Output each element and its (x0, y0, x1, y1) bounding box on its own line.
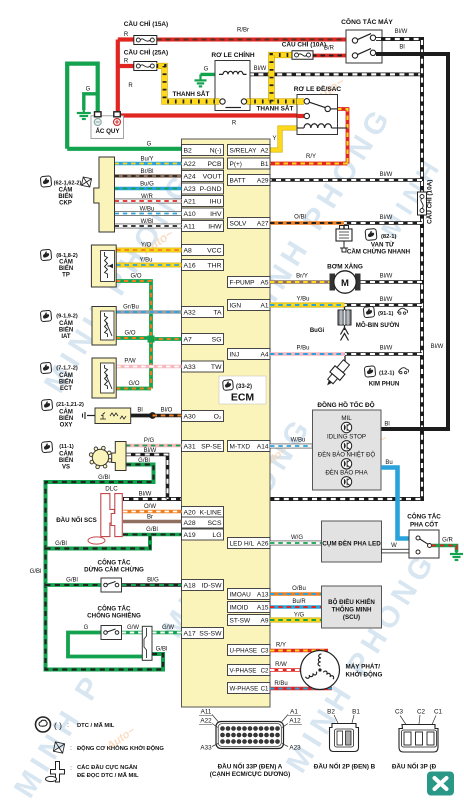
svg-text:RƠ LE CHÍNH: RƠ LE CHÍNH (211, 50, 255, 59)
svg-text:LG: LG (212, 532, 221, 539)
battery ẮC QUY (91, 112, 124, 139)
svg-text:M: M (341, 278, 349, 289)
svg-text:VCC: VCC (207, 247, 221, 254)
svg-text:R: R (128, 83, 133, 89)
node pin F-PUMP A5 (228, 277, 271, 288)
node splice A30 (149, 412, 156, 419)
legend jumper icon (46, 762, 139, 783)
fuse CẦU CHÌ (10A) top (282, 39, 352, 60)
fuse CẦU CHÌ (25A) (124, 47, 168, 71)
svg-text:BuGi: BuGi (310, 328, 325, 334)
fuse CẦU CHÌ (15A) (124, 18, 168, 45)
svg-text:C2: C2 (261, 667, 269, 674)
svg-text:A11: A11 (201, 709, 212, 716)
svg-text:R/Y: R/Y (306, 154, 316, 160)
sensor IAT label (40, 310, 78, 340)
svg-text:Y/O: Y/O (141, 243, 152, 249)
svg-text:Y: Y (272, 136, 276, 142)
svg-text:CẢM: CẢM (59, 320, 73, 327)
svg-text:ECT: ECT (60, 386, 72, 392)
svg-text:Bl/W: Bl/W (144, 448, 157, 454)
relay RƠ LE ĐỀ/SAC (294, 83, 348, 135)
svg-text:IHU: IHU (210, 198, 222, 205)
wire B/W main relay output (249, 66, 422, 74)
motor BƠM XĂNG fuel pump (327, 262, 363, 294)
svg-text:R/W: R/W (275, 662, 287, 668)
ground dimmer (450, 550, 463, 560)
connector ĐẦU NỐI 2P (314, 709, 376, 771)
meter ĐỒNG HỒ TỐC ĐỘ (313, 399, 382, 490)
node pin A23 P-GND (182, 183, 224, 194)
svg-text:C2: C2 (417, 709, 426, 716)
svg-text:CẢM: CẢM (59, 259, 73, 266)
svg-text:O/Bu: O/Bu (292, 586, 306, 592)
svg-text:Bl/W: Bl/W (395, 29, 408, 35)
svg-text:A12: A12 (289, 718, 301, 725)
svg-text:A8: A8 (184, 247, 193, 254)
svg-text:A4: A4 (261, 351, 269, 358)
coil MÔ-BIN SƯỜN (310, 307, 351, 341)
node pin IGN A1 (228, 300, 271, 311)
svg-text:TW: TW (211, 364, 222, 371)
svg-text:CẢM: CẢM (59, 451, 73, 458)
svg-text:(12-1): (12-1) (379, 371, 395, 377)
svg-text:CÔNG TẮC: CÔNG TẮC (98, 605, 132, 613)
svg-text:C1: C1 (434, 709, 443, 716)
wire G relay coil ground (201, 67, 224, 75)
node pin P(+) B1 (228, 158, 271, 169)
wire W/R CKP (115, 194, 182, 201)
svg-text:R: R (232, 121, 237, 127)
svg-text:INJ: INJ (230, 351, 240, 358)
svg-text:CỤM ĐÈN PHA LED: CỤM ĐÈN PHA LED (322, 539, 381, 548)
svg-text:O/W: O/W (144, 504, 156, 510)
svg-text:Bl: Bl (384, 422, 389, 428)
switch CÔNG TẮC CHỐNG NGHIÊNG (87, 605, 141, 640)
sensor OXY (83, 408, 131, 424)
svg-text:BATT: BATT (230, 177, 246, 184)
ECM label (33-2) (219, 376, 266, 404)
svg-text:A10: A10 (184, 211, 196, 218)
svg-text:G/Bl: G/Bl (55, 541, 67, 547)
svg-text:A33: A33 (200, 745, 212, 752)
wire R battery feed (118, 32, 304, 127)
svg-text:KHỞI ĐỘNG: KHỞI ĐỘNG (346, 670, 383, 679)
node pin IMOAU A13 (228, 589, 271, 600)
svg-text::: : (67, 722, 69, 729)
relay RƠ LE CHÍNH (211, 50, 255, 111)
svg-text:G/O: G/O (128, 381, 139, 387)
svg-text:O₂: O₂ (214, 413, 222, 420)
wire R/Y starter relay to B1 (270, 109, 348, 164)
svg-text:A15: A15 (257, 604, 269, 611)
solenoid label (82-1) (347, 229, 411, 256)
svg-text:P/G: P/G (144, 438, 155, 444)
svg-text:A29: A29 (257, 177, 269, 184)
wire O/Bu IMOAU (270, 586, 322, 594)
svg-text:A19: A19 (184, 532, 196, 539)
svg-text:G/Bl: G/Bl (98, 475, 110, 481)
svg-text:G: G (204, 67, 209, 73)
svg-text:Bl/W: Bl/W (380, 274, 393, 280)
svg-text:ĐỂ ĐỌC DTC / MÃ MIL: ĐỂ ĐỌC DTC / MÃ MIL (77, 772, 139, 779)
coil label (91-1) (356, 306, 408, 329)
svg-text:CHỐNG NGHIÊNG: CHỐNG NGHIÊNG (87, 612, 141, 620)
node pin A10 IHV (182, 208, 224, 219)
connector ĐẦU NỐI 33P (199, 709, 302, 779)
wire G/Bl DLC LG (123, 527, 182, 535)
svg-text:A23: A23 (184, 186, 196, 193)
wire W/Bu CKP (115, 206, 182, 213)
control unit SCU (322, 586, 382, 628)
svg-text:BIẾN: BIẾN (58, 193, 72, 200)
svg-text:KIM PHUN: KIM PHUN (369, 381, 400, 388)
svg-text:A9: A9 (261, 617, 269, 624)
wire Y/O TP VCC (116, 243, 181, 251)
node pin A22 PCB (182, 158, 224, 169)
svg-text:(21-1,21-2): (21-1,21-2) (56, 402, 84, 408)
wire Gr/Bu IAT TA (116, 305, 181, 313)
svg-text:P(+): P(+) (230, 161, 242, 168)
legend no-start icon (53, 742, 164, 753)
svg-text:P/W: P/W (124, 359, 136, 365)
svg-text:CẢM: CẢM (59, 187, 73, 194)
switch CÔNG TẮC DỪNG CẦM CHỪNG (84, 559, 144, 593)
svg-text:THANH SẮT: THANH SẮT (257, 104, 294, 113)
svg-text:Bu/R: Bu/R (292, 599, 306, 605)
svg-text:IHV: IHV (210, 211, 222, 218)
node pin A21 IHU (182, 196, 224, 207)
svg-text:A23: A23 (289, 745, 301, 752)
wire Bu meter to dimmer switch (381, 460, 412, 539)
svg-text:BIẾN: BIẾN (59, 265, 73, 272)
svg-text:VS: VS (62, 465, 70, 471)
wire P/G VS SP-SE (126, 438, 182, 446)
svg-text:(7-1,7-2): (7-1,7-2) (56, 366, 78, 372)
svg-text:TP: TP (62, 273, 70, 279)
node pin B2 N(-) (182, 145, 224, 156)
svg-text:B2: B2 (327, 709, 335, 716)
wire R/Br (157, 28, 353, 40)
svg-text::: : (70, 765, 72, 772)
node pin U-PHASE C3 (228, 645, 271, 656)
sensor ECT (92, 358, 116, 398)
svg-text:B1: B1 (352, 709, 360, 716)
wire G battery ground net (67, 64, 181, 149)
wire Bl/O to A30 (153, 408, 182, 416)
svg-text:A27: A27 (257, 220, 269, 227)
svg-text:(62-1,62-2): (62-1,62-2) (54, 181, 82, 187)
svg-text:BƠM XĂNG: BƠM XĂNG (327, 262, 363, 271)
svg-text:(8-1,8-2): (8-1,8-2) (56, 253, 78, 259)
node pin W-PHASE C1 (228, 683, 271, 694)
svg-text:ECM: ECM (231, 392, 255, 404)
svg-text:CẢM: CẢM (59, 372, 73, 379)
node pin BATT A29 (228, 175, 271, 186)
wire Br/Y F-PUMP (270, 274, 333, 283)
svg-text:Bl/W: Bl/W (380, 297, 393, 303)
ground relay coil (195, 74, 207, 86)
injector label (12-1) (364, 366, 408, 388)
svg-text:W/Bu: W/Bu (140, 206, 155, 212)
wire R/Bu W-PHASE (270, 681, 332, 689)
svg-text:A17: A17 (184, 630, 196, 637)
svg-text:Bl/W: Bl/W (380, 172, 393, 178)
ground battery (77, 108, 91, 119)
svg-text:W-PHASE: W-PHASE (230, 685, 259, 692)
svg-text:ĐỘNG CƠ KHÔNG KHỞI ĐỘNG: ĐỘNG CƠ KHÔNG KHỞI ĐỘNG (77, 744, 164, 752)
svg-text:ST-SW: ST-SW (230, 617, 251, 624)
node pin S/RELAY A2 (228, 145, 271, 156)
sensor ECT label (40, 362, 78, 392)
wire THANH SẮT yellow link over crossing (268, 55, 274, 102)
svg-text:(CẠNH ECM/CỰC DƯƠNG): (CẠNH ECM/CỰC DƯƠNG) (210, 771, 291, 778)
svg-text:ẮC QUY: ẮC QUY (95, 127, 120, 135)
sensor CKP label (40, 176, 91, 207)
svg-text:A18: A18 (184, 582, 196, 589)
wire G/W bank angle switch (122, 625, 143, 633)
svg-text:K-LINE: K-LINE (200, 509, 222, 516)
svg-text:CÁC ĐẦU CỰC NGẮN: CÁC ĐẦU CỰC NGẮN (77, 763, 137, 771)
node pin A24 VOUT (182, 171, 224, 182)
svg-text:A1: A1 (261, 302, 269, 309)
svg-text:R/Br: R/Br (237, 28, 249, 34)
svg-text:Bl/W: Bl/W (380, 346, 393, 352)
node pin A17 SS-SW (182, 628, 224, 639)
svg-text:A28: A28 (184, 520, 196, 527)
svg-text:S/RELAY: S/RELAY (230, 147, 258, 154)
svg-text:A20: A20 (184, 509, 196, 516)
node pin A30 O₂ (182, 411, 224, 422)
svg-text:ĐÈN BÁO PHA: ĐÈN BÁO PHA (325, 469, 368, 476)
wire Bu/Y CKP (115, 156, 182, 163)
svg-text:A24: A24 (184, 173, 196, 180)
svg-text:CẦM CHỪNG NHANH: CẦM CHỪNG NHANH (347, 249, 411, 256)
svg-text:G/W: G/W (127, 625, 139, 631)
svg-text:(9-1,9-2): (9-1,9-2) (56, 314, 78, 320)
wire W LED to switch (382, 543, 410, 553)
svg-text:DTC / MÃ MIL: DTC / MÃ MIL (77, 722, 115, 729)
svg-text:A32: A32 (184, 309, 196, 316)
svg-text:VOUT: VOUT (203, 173, 222, 180)
svg-text:Bl/W: Bl/W (139, 492, 152, 498)
svg-text:R: R (124, 32, 129, 38)
wire Br DLC SCS (123, 515, 182, 522)
wire B/W ignition bus (123, 29, 444, 499)
legend DTC icon (36, 717, 115, 732)
node pin A28 SCS (182, 517, 224, 528)
svg-text:OXY: OXY (60, 423, 73, 429)
svg-text:M-TXD: M-TXD (230, 443, 251, 450)
svg-text::: : (70, 745, 72, 752)
svg-text:W/G: W/G (291, 535, 303, 541)
svg-text:(82-1): (82-1) (381, 234, 397, 240)
svg-text:VAN TỪ: VAN TỪ (371, 242, 395, 249)
svg-text:CKP: CKP (59, 201, 72, 207)
svg-text:G/Bl: G/Bl (30, 569, 42, 575)
wire O/Bl SOLV (270, 215, 344, 224)
svg-text:C1: C1 (261, 685, 269, 692)
svg-text:(33-2): (33-2) (236, 384, 252, 390)
wire W/Bl CKP (115, 219, 182, 226)
sensor TP (91, 245, 116, 287)
svg-text:SS-SW: SS-SW (199, 630, 222, 637)
svg-text:Bl: Bl (137, 408, 142, 414)
sensor IAT (92, 307, 116, 346)
svg-text:IMOAU: IMOAU (230, 591, 252, 598)
wire G/O sensor ground chain (116, 274, 181, 389)
svg-text:Bl/G: Bl/G (147, 578, 159, 584)
svg-text:Bl/W: Bl/W (380, 215, 393, 221)
svg-text:A11: A11 (184, 223, 196, 230)
svg-text:BỘ ĐIỀU KHIỂN: BỘ ĐIỀU KHIỂN (328, 598, 375, 606)
svg-text:MÔ-BIN SƯỜN: MÔ-BIN SƯỜN (356, 321, 400, 329)
node pin IMOID A15 (228, 602, 271, 613)
svg-text:G/Bl: G/Bl (138, 458, 150, 464)
ECM control unit (33-2) (182, 139, 271, 707)
svg-text:R/Bu: R/Bu (274, 681, 287, 687)
sensor CKP connector (94, 157, 115, 232)
svg-text:G/O: G/O (124, 331, 135, 337)
svg-text:R/Y: R/Y (276, 643, 286, 649)
wire Bl/G idle stop to A18 (122, 578, 182, 586)
close button (427, 772, 454, 796)
svg-text:TA: TA (213, 309, 222, 316)
svg-text:W: W (391, 543, 397, 549)
switch CÔNG TẮC PHA CỐT (407, 512, 441, 559)
wire P/Bu INJ (270, 346, 345, 355)
wire G bank angle loop (68, 625, 146, 660)
svg-text:A13: A13 (257, 591, 269, 598)
svg-text:G/W: G/W (162, 625, 174, 631)
wire R/W V-PHASE (270, 662, 302, 670)
node pin A11 IHW (182, 221, 224, 232)
wire P/W ECT TW (116, 359, 181, 367)
svg-text:B2: B2 (184, 147, 193, 154)
svg-text:U-PHASE: U-PHASE (230, 647, 258, 654)
node pin A8 VCC (182, 245, 224, 256)
svg-text:THR: THR (208, 262, 222, 269)
svg-text:G: G (147, 142, 152, 148)
svg-text:DỪNG CẦM CHỪNG: DỪNG CẦM CHỪNG (84, 567, 144, 574)
svg-text:Br/Y: Br/Y (296, 274, 308, 280)
svg-text:DLC: DLC (105, 486, 118, 493)
svg-text:A5: A5 (261, 279, 269, 286)
wire G/W to A17 (152, 625, 182, 633)
svg-text:V-PHASE: V-PHASE (230, 667, 257, 674)
svg-text:BIẾN: BIẾN (59, 327, 73, 334)
svg-text:CÔNG TẮC MÁY: CÔNG TẮC MÁY (341, 17, 393, 26)
svg-text:A7: A7 (184, 336, 193, 343)
svg-text:F-PUMP: F-PUMP (230, 279, 255, 286)
svg-text:BIẾN: BIẾN (59, 379, 73, 386)
node pin A7 SG (182, 334, 224, 345)
svg-text:IDLING STOP: IDLING STOP (327, 434, 366, 441)
svg-text:Br/Bl: Br/Bl (140, 169, 153, 175)
svg-text:PCB: PCB (208, 161, 222, 168)
svg-text:ĐÈN BÁO NHIỆT ĐỘ: ĐÈN BÁO NHIỆT ĐỘ (318, 450, 376, 458)
svg-text:( ): ( ) (54, 721, 62, 731)
svg-text:Bl: Bl (399, 45, 404, 51)
wire Y/Bu TP THR (116, 258, 181, 266)
wire Bu/R IMOID (270, 599, 322, 607)
wire Br/Bl CKP (115, 169, 182, 176)
sensor TP label (40, 249, 78, 278)
svg-text:G: G (84, 625, 89, 631)
node pin A20 K-LINE (182, 507, 224, 518)
svg-text:(11-1): (11-1) (59, 444, 74, 450)
node pin A18 ID-SW (182, 580, 224, 591)
switch CÔNG TẮC MÁY (341, 17, 393, 63)
svg-text:A1: A1 (290, 709, 298, 716)
wire Bl/W DLC label (139, 492, 152, 498)
svg-text:SP-SE: SP-SE (201, 443, 222, 450)
lamp unit CỤM ĐÈN PHA LED (322, 521, 382, 562)
svg-text:W/R: W/R (141, 194, 153, 200)
wire Bl OXY (131, 408, 153, 416)
svg-text:G/Bl: G/Bl (146, 527, 158, 533)
connector bank angle (142, 626, 152, 660)
svg-text:LED H/L: LED H/L (230, 540, 255, 547)
svg-text:G/Bl: G/Bl (66, 578, 78, 584)
wire Bl/W VS to bus (126, 448, 168, 499)
svg-text:ĐẦU NỐI SCS: ĐẦU NỐI SCS (56, 517, 97, 524)
svg-text:A33: A33 (184, 364, 196, 371)
svg-text:A21: A21 (184, 198, 196, 205)
svg-text:ID-SW: ID-SW (201, 582, 222, 589)
svg-text:SOLV: SOLV (230, 220, 248, 227)
svg-text:IGN: IGN (230, 302, 242, 309)
wire G/Bl VS ground net (30, 458, 168, 670)
svg-text:SCS: SCS (208, 520, 222, 527)
svg-text:Bl/O: Bl/O (161, 408, 173, 414)
node pin V-PHASE C2 (228, 665, 271, 676)
node pin A31 SP-SE (182, 441, 224, 452)
svg-text:G/Bl: G/Bl (156, 647, 168, 653)
svg-text:BIẾN: BIẾN (59, 415, 73, 422)
svg-text:CẢM: CẢM (59, 409, 73, 416)
node pin SOLV A27 (228, 218, 271, 229)
svg-text:THANH SẮT: THANH SẮT (173, 89, 210, 98)
node pin A33 TW (182, 361, 224, 372)
svg-text:A14: A14 (257, 443, 269, 450)
svg-text:Bu/G: Bu/G (140, 181, 154, 187)
generator MÁY PHÁT/KHỞI ĐỘNG (301, 651, 383, 690)
svg-text:W/Bu: W/Bu (291, 438, 306, 444)
svg-text:Bl/W: Bl/W (254, 66, 267, 72)
svg-text:IHW: IHW (208, 223, 222, 230)
node pin A32 TA (182, 307, 224, 318)
svg-text:A22: A22 (200, 718, 212, 725)
wire R/Y U-PHASE (270, 643, 328, 651)
svg-text:G/O: G/O (130, 274, 141, 280)
svg-text:P-GND: P-GND (200, 186, 222, 193)
connector DLC ĐẦU NỐI SCS (56, 486, 122, 545)
svg-text:(91-1): (91-1) (378, 311, 394, 317)
node pin INJ A4 (228, 349, 271, 360)
svg-text:A30: A30 (184, 413, 196, 420)
node pin LED H/L A26 (228, 538, 271, 549)
svg-text:Bu: Bu (385, 460, 392, 466)
wire G/Bl to idle stop switch (46, 578, 102, 586)
node pin A16 THR (182, 260, 224, 271)
svg-text:MÁY PHÁT/: MÁY PHÁT/ (346, 662, 381, 671)
wire O/W DLC K-LINE (123, 504, 182, 512)
node pin M-TXD A14 (228, 441, 271, 452)
svg-text:THÔNG MINH: THÔNG MINH (332, 606, 372, 614)
wire Bu/G CKP (115, 181, 182, 188)
node pin ST-SW A9 (228, 615, 271, 626)
